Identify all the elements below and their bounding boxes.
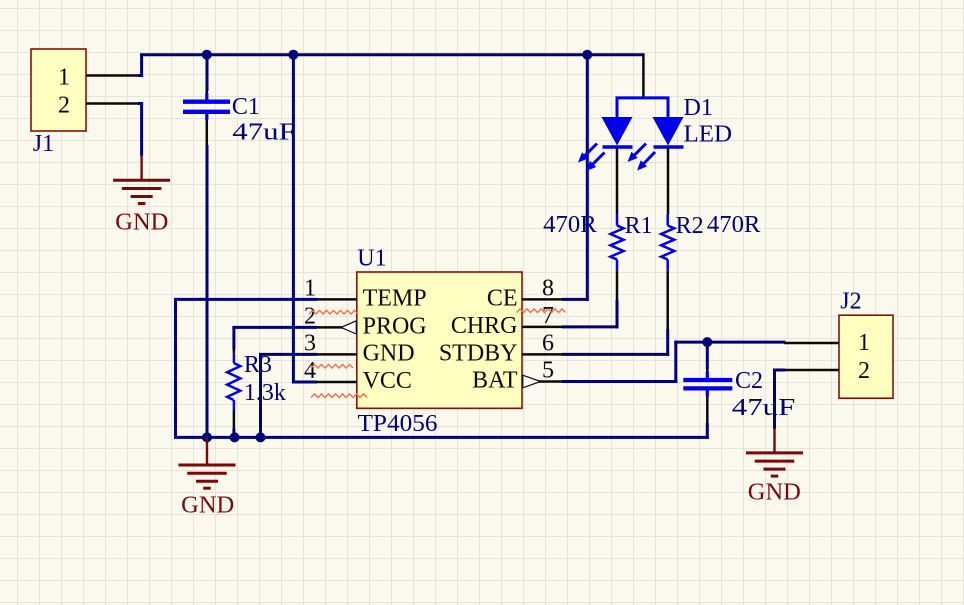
label J1: [33, 131, 54, 157]
svg-text:5: 5: [542, 358, 554, 384]
label C2: [735, 368, 763, 394]
svg-text:U1: U1: [357, 246, 386, 272]
error squiggle below VCC pin: [311, 394, 367, 398]
wire U1 TEMP to GND rail: [174, 298, 317, 439]
resistor R3: [227, 349, 240, 429]
connector J2 body: [839, 315, 893, 398]
connector J1 body: [31, 49, 86, 131]
wire J2.2 to GND: [773, 369, 786, 430]
svg-text:CHRG: CHRG: [451, 313, 518, 339]
svg-text:R2: R2: [676, 213, 704, 239]
wire R1 to U1 CHRG: [562, 300, 619, 328]
ground symbol GND (J2): [746, 428, 803, 476]
ground symbol GND (middle): [179, 438, 236, 488]
wire U1 CE to VCC rail: [562, 53, 589, 301]
svg-text:R1: R1: [625, 213, 653, 239]
label R3: [244, 352, 272, 378]
junction BAT node / C2: [702, 337, 712, 347]
J2 pin 2: [784, 358, 870, 384]
svg-text:47uF: 47uF: [732, 395, 796, 421]
wire J1.2 down to GND: [138, 102, 143, 157]
junction GND rail / C1: [202, 432, 212, 442]
label 47uF (C2): [732, 395, 796, 421]
IC U1 body: [357, 272, 522, 408]
svg-text:VCC: VCC: [363, 368, 412, 394]
LED left cathode pin: [616, 148, 619, 214]
svg-text:3: 3: [304, 330, 316, 356]
svg-text:STDBY: STDBY: [439, 341, 518, 367]
J2 pin 1: [784, 330, 870, 356]
wire J1.1 to VCC rail: [138, 53, 143, 77]
label J2: [840, 289, 861, 315]
svg-text:1.3k: 1.3k: [244, 380, 286, 406]
junction GND rail / R3: [230, 432, 240, 442]
wire U1 BAT to BAT node: [562, 341, 786, 383]
wire VCC rail to U1 VCC pin: [292, 53, 317, 383]
svg-text:2: 2: [58, 93, 70, 119]
PROG input triangle: [341, 321, 356, 334]
wire VCC rail to C1: [206, 53, 209, 91]
capacitor C1: [183, 88, 230, 146]
U1 pin 3 (GND): [304, 330, 415, 366]
wire R3 to GND rail: [232, 429, 235, 439]
LED right cathode pin: [667, 148, 670, 214]
label TP4056: [358, 411, 438, 437]
LED D1 left emission arrows: [578, 144, 605, 172]
svg-text:CE: CE: [487, 286, 518, 312]
svg-text:C1: C1: [232, 94, 260, 120]
label 470R (R1): [543, 212, 597, 238]
svg-text:J2: J2: [840, 289, 861, 315]
wire R2 to U1 STDBY: [562, 329, 669, 356]
U1 pin 8 (CE): [487, 275, 563, 311]
wire C1 to GND rail: [206, 145, 209, 439]
error squiggle under pin 4: [311, 364, 353, 368]
label R2: [676, 213, 704, 239]
label R1: [625, 213, 653, 239]
svg-text:BAT: BAT: [472, 368, 518, 394]
svg-text:4: 4: [304, 358, 316, 384]
svg-text:PROG: PROG: [363, 314, 427, 340]
label 470R (R2): [707, 212, 761, 238]
ground symbol GND (J1): [113, 155, 170, 204]
LED D1 right diode: [653, 117, 684, 147]
svg-text:GND: GND: [115, 210, 168, 236]
U1 pin 1 (TEMP): [304, 275, 427, 311]
U1 pin 6 (STDBY): [439, 330, 563, 366]
resistor R2: [661, 214, 674, 330]
error squiggle under pin 2: [309, 310, 358, 314]
U1 pin 7 (CHRG): [451, 303, 563, 339]
svg-text:6: 6: [542, 330, 554, 356]
label GND (J2): [748, 480, 801, 506]
svg-text:J1: J1: [33, 131, 54, 157]
resistor R1: [610, 214, 623, 301]
wire U1 GND to GND rail: [259, 353, 317, 439]
wire U1 PROG to R3: [232, 326, 317, 350]
label 1.3k: [244, 380, 286, 406]
GND rail (bottom): [174, 436, 709, 439]
svg-text:1: 1: [858, 330, 870, 356]
LED D1 right emission arrows: [628, 144, 656, 171]
svg-text:2: 2: [304, 303, 316, 329]
svg-text:C2: C2: [735, 368, 763, 394]
U1 pin 4 (VCC): [304, 358, 412, 394]
wire VCC rail (top): [140, 53, 643, 56]
capacitor C2: [683, 341, 732, 439]
J1 pin 1: [58, 65, 140, 91]
svg-text:7: 7: [542, 303, 554, 329]
svg-text:470R: 470R: [707, 212, 761, 238]
svg-text:470R: 470R: [543, 212, 597, 238]
svg-text:D1: D1: [684, 95, 713, 121]
svg-text:1: 1: [58, 65, 70, 91]
LED D1 anode bracket: [617, 98, 668, 118]
svg-text:TEMP: TEMP: [363, 286, 427, 312]
svg-text:1: 1: [304, 275, 316, 301]
J1 pin 2: [58, 93, 140, 119]
junction GND rail / U1 GND: [256, 432, 266, 442]
U1 pin 2 (PROG): [304, 303, 427, 339]
error squiggle under pin 7: [517, 309, 566, 313]
label 47uF (C1): [232, 120, 295, 146]
U1 pin 5 (BAT): [472, 358, 563, 394]
LED D1 anode feed pin: [642, 53, 645, 97]
junction VCC rail / C1: [202, 50, 212, 60]
label C1: [232, 94, 260, 120]
svg-text:TP4056: TP4056: [358, 411, 438, 437]
svg-text:8: 8: [542, 275, 554, 301]
label LED: [684, 122, 733, 148]
svg-text:2: 2: [858, 358, 870, 384]
junction VCC rail / VCC riser: [288, 50, 298, 60]
svg-text:47uF: 47uF: [232, 120, 295, 146]
label GND (J1): [115, 210, 168, 236]
BAT output triangle: [523, 375, 541, 388]
svg-text:GND: GND: [363, 341, 415, 367]
svg-text:LED: LED: [684, 122, 733, 148]
svg-text:GND: GND: [748, 480, 801, 506]
junction VCC rail / CE riser: [582, 50, 592, 60]
svg-text:GND: GND: [181, 493, 234, 519]
label D1: [684, 95, 713, 121]
LED D1 left diode: [602, 117, 633, 147]
label GND (middle): [181, 493, 234, 519]
label U1: [357, 246, 386, 272]
